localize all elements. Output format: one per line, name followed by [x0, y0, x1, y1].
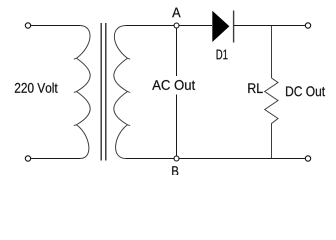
wire junction down to resistor [271, 26, 273, 78]
wire secondary bottom to node B [126, 158, 174, 160]
transformer core [100, 23, 102, 161]
wire bottom-left primary [31, 158, 80, 160]
resistor RL zigzag [265, 78, 278, 159]
label B [172, 166, 178, 176]
label AC Out [151, 76, 196, 95]
transformer T1 secondary winding [114, 26, 128, 159]
label DC Out [286, 86, 325, 96]
wire node B to terminal bottom-right [179, 158, 305, 160]
terminal top-left [25, 23, 30, 28]
label RL [248, 83, 262, 93]
transformer T1 primary winding [77, 26, 91, 159]
terminal bottom-right [305, 156, 310, 161]
diode D1 cathode bar [233, 11, 235, 43]
wire top-left primary [31, 25, 80, 27]
label 220 Volt [15, 83, 58, 93]
label A [172, 8, 181, 18]
terminal bottom-left [25, 156, 30, 161]
node B [174, 156, 179, 161]
wire secondary top to node A [126, 25, 174, 27]
wire diode to terminal top-right [234, 25, 305, 27]
terminal top-right [305, 23, 310, 28]
diode D1 anode triangle [212, 11, 229, 42]
wire node A to node B vertical [176, 28, 178, 156]
primary cusp hooks [74, 58, 77, 126]
node A [174, 23, 179, 28]
wire node A to diode [179, 25, 212, 27]
label D1 [217, 50, 228, 60]
secondary cusp hooks [127, 58, 130, 126]
